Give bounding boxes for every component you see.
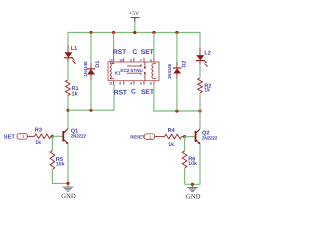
svg-text:RESET: RESET [130, 135, 144, 140]
svg-text:RST: RST [114, 89, 128, 96]
junction dot SET/rail [152, 31, 155, 34]
wire R2 to Q2 collector [199, 93, 201, 129]
wire SET top [153, 33, 155, 59]
junction dot D2 bottom [175, 109, 178, 112]
wire R6 to ground rail [184, 168, 186, 184]
junction dot D1/rail [89, 31, 92, 34]
relay pin 10 bottom stub [153, 81, 155, 85]
relay coil 1 [110, 64, 111, 79]
junction dot right ground [191, 183, 194, 186]
svg-text:R4: R4 [168, 128, 176, 134]
connector RESET input [130, 134, 164, 140]
svg-text:R3: R3 [35, 128, 42, 134]
wire D2 to node [176, 79, 178, 112]
svg-text:GND: GND [186, 194, 201, 201]
junction dot Q2 base node [183, 135, 186, 138]
junction dot D2/rail [175, 31, 178, 34]
diode D1 [83, 33, 101, 81]
svg-text:GND: GND [61, 193, 76, 200]
svg-text:9: 9 [130, 59, 132, 63]
svg-text:12: 12 [109, 59, 113, 63]
relay pin 4 top stub [143, 58, 145, 62]
svg-text:RST: RST [113, 49, 127, 56]
svg-text:1N4148: 1N4148 [83, 61, 88, 77]
svg-text:5: 5 [150, 59, 152, 63]
wire RST top [113, 33, 115, 59]
connector SET input [4, 134, 35, 141]
svg-text:10k: 10k [56, 162, 65, 168]
LED L1 [64, 45, 77, 64]
svg-text:10k: 10k [188, 161, 197, 167]
LED L2 [196, 48, 211, 67]
resistor R4 [165, 128, 185, 148]
resistor R6 [182, 151, 197, 168]
wire R6 column [184, 137, 186, 151]
svg-text:1N4148: 1N4148 [167, 63, 172, 79]
svg-text:D1: D1 [95, 61, 101, 68]
relay K1 EC2-5TNU body [108, 62, 159, 81]
wire R5 to ground rail [52, 170, 68, 184]
wire +5V stem [134, 22, 136, 33]
svg-text:1k: 1k [168, 142, 174, 148]
svg-text:10: 10 [119, 59, 123, 63]
svg-text:D2: D2 [182, 61, 188, 68]
resistor R5 [50, 151, 64, 170]
wire top +5V rail [68, 33, 200, 49]
svg-text:C: C [132, 49, 137, 56]
relay coil 2 [152, 64, 153, 79]
svg-text:C: C [131, 89, 136, 96]
wire base node to Q2 [185, 136, 195, 138]
relay bottom pin numbers [109, 82, 152, 86]
relay pin 9 bottom stub [143, 81, 145, 85]
resistor R2 [198, 78, 212, 93]
svg-text:SET: SET [141, 89, 155, 96]
relay pin 5 top stub [153, 58, 155, 62]
transistor Q1 2N2222 [63, 128, 86, 144]
svg-text:8: 8 [150, 82, 152, 86]
relay contact internals [127, 62, 146, 81]
wire Q1 emitter down [67, 144, 69, 184]
svg-text:1k: 1k [35, 140, 41, 146]
wire L2 to R2 [199, 64, 201, 78]
resistor R1 [66, 80, 79, 97]
ground GND left [61, 183, 76, 199]
relay pin 6 bottom stub [113, 81, 115, 85]
svg-text:2N2222: 2N2222 [71, 134, 87, 139]
svg-text:EC2-5TNU: EC2-5TNU [120, 68, 143, 73]
junction dot left ground [66, 182, 69, 185]
resistor R3 [35, 128, 53, 147]
wire R1 to Q1 collector [67, 96, 69, 130]
svg-text:4: 4 [130, 82, 132, 86]
relay top pin numbers [109, 59, 152, 63]
wire L1 to R1 [67, 62, 69, 80]
wire D1 to node [90, 80, 92, 111]
svg-text:9: 9 [119, 82, 121, 86]
relay pin 7 bottom stub [123, 81, 125, 85]
wire R5 column [51, 136, 53, 150]
wire Q2 emitter down [185, 144, 200, 184]
svg-text:2N2222: 2N2222 [202, 136, 218, 141]
junction dot left column [66, 109, 69, 112]
svg-text:L2: L2 [204, 51, 211, 57]
svg-text:SET: SET [141, 49, 155, 56]
wire node to relay RST bottom [68, 85, 114, 110]
relay pin 3 top stub [133, 58, 135, 62]
junction dot D1 bottom [89, 109, 92, 112]
svg-text:SET: SET [4, 134, 16, 141]
svg-text:+5V: +5V [129, 11, 140, 17]
junction dot +5V/rail [133, 31, 136, 34]
svg-text:L1: L1 [71, 46, 78, 52]
transistor Q2 2N2222 [196, 129, 218, 144]
relay pin 8 bottom stub [133, 81, 135, 85]
svg-text:6: 6 [140, 82, 142, 86]
relay pin 1 top stub [113, 58, 115, 62]
svg-text:11: 11 [109, 82, 113, 86]
junction dot RST/rail [112, 31, 115, 34]
junction dot right column [198, 109, 201, 112]
svg-text:7: 7 [140, 59, 142, 63]
wire SET bottom to node [154, 85, 200, 111]
ground GND right [186, 184, 201, 200]
diode D2 [167, 33, 187, 80]
svg-text:1k: 1k [72, 90, 79, 97]
wire base node to Q1 [52, 135, 62, 137]
junction dot Q1 base node [51, 135, 54, 138]
svg-text:1k: 1k [204, 87, 210, 93]
+5V supply symbol [129, 11, 140, 22]
relay pin 2 top stub [123, 58, 125, 62]
